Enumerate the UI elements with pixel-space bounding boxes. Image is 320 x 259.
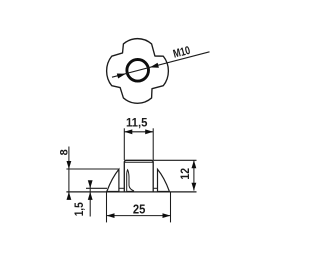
svg-text:11,5: 11,5 [126, 115, 148, 129]
svg-text:1,5: 1,5 [72, 202, 86, 216]
svg-text:8: 8 [58, 149, 70, 155]
svg-text:25: 25 [133, 202, 146, 216]
svg-text:12: 12 [178, 168, 192, 180]
svg-text:M10: M10 [172, 45, 192, 61]
